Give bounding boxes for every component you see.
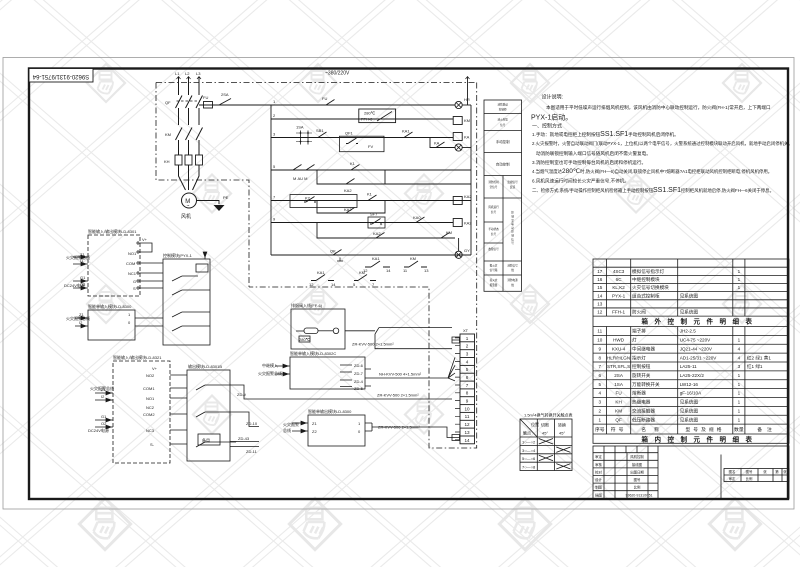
svg-text:COM: COM	[126, 261, 135, 266]
svg-text:智能单输入模块LD-8302C: 智能单输入模块LD-8302C	[290, 350, 336, 356]
svg-text:6: 6	[466, 375, 469, 380]
svg-text:45°: 45°	[559, 431, 565, 436]
svg-text:1.手动：就地或电控柜上控制按钮SS1.SF1手动控制风机启: 1.手动：就地或电控柜上控制按钮SS1.SF1手动控制风机启闭停机。	[532, 131, 679, 138]
svg-text:13: 13	[424, 268, 429, 273]
svg-text:5○—○6: 5○—○6	[522, 456, 536, 461]
svg-text:KA: KA	[434, 141, 440, 146]
svg-text:STR,SFL,S: STR,SFL,S	[607, 364, 630, 369]
svg-text:KH: KH	[164, 159, 170, 164]
svg-text:12: 12	[464, 422, 470, 427]
svg-text:M AU M: M AU M	[293, 176, 307, 181]
svg-text:出图日期: 出图日期	[630, 469, 644, 474]
svg-text:信号: 信号	[491, 232, 497, 236]
svg-text:KA2: KA2	[344, 207, 352, 212]
svg-text:FV: FV	[368, 144, 373, 149]
svg-text:HWD: HWD	[613, 338, 625, 343]
svg-text:本图适用于平时低噪声运行排烟风机控制，该风机由消防中心联动控: 本图适用于平时低噪声运行排烟风机控制，该风机由消防中心联动控制运行，防火阀(FH…	[546, 104, 771, 111]
svg-text:KA: KA	[464, 135, 470, 140]
svg-text:指示灯: 指示灯	[632, 354, 646, 361]
svg-text:KA2: KA2	[464, 221, 472, 226]
svg-text:1: 1	[738, 277, 741, 282]
svg-text:4.当烟气温度达280℃时,防火阀(FH—6)自动关闭,联锁: 4.当烟气温度达280℃时,防火阀(FH—6)自动关闭,联锁停止风机中?熔断器?…	[532, 168, 772, 175]
svg-text:3: 3	[598, 400, 601, 405]
svg-text:G1: G1	[101, 414, 107, 419]
svg-text:风机运行: 风机运行	[488, 205, 499, 209]
svg-text:17: 17	[597, 269, 603, 274]
svg-text:11: 11	[597, 329, 602, 334]
svg-text:ZR-KVV-500 2×1.5mm²: ZR-KVV-500 2×1.5mm²	[378, 425, 420, 430]
svg-text:Z1: Z1	[80, 252, 85, 257]
svg-text:KM: KM	[359, 270, 365, 275]
svg-text:1: 1	[738, 382, 741, 387]
svg-text:12: 12	[309, 282, 314, 287]
svg-text:1: 1	[738, 417, 741, 422]
svg-text:14: 14	[464, 438, 470, 443]
svg-text:Z2: Z2	[312, 429, 317, 434]
svg-text:45°: 45°	[542, 431, 548, 436]
svg-text:名称: 名称	[641, 426, 667, 433]
svg-text:输出模块LD-8301B: 输出模块LD-8301B	[188, 363, 222, 369]
svg-text:第: 第	[775, 469, 779, 474]
svg-text:位置: 位置	[531, 421, 539, 427]
svg-text:FU: FU	[203, 95, 208, 100]
svg-text:自动控制: 自动控制	[496, 162, 510, 167]
svg-text:4: 4	[466, 359, 469, 364]
svg-text:红1 绿1: 红1 绿1	[747, 363, 763, 369]
svg-text:型号及规格: 型号及规格	[686, 426, 725, 433]
svg-text:中间继电器: 中间继电器	[632, 345, 655, 352]
svg-text:备用: 备用	[202, 437, 210, 443]
svg-text:ZD-#: ZD-#	[237, 392, 247, 397]
svg-text:G1: G1	[80, 275, 86, 280]
svg-text:见系统图: 见系统图	[680, 399, 699, 406]
svg-text:S9620-9131/9751: S9620-9131/9751	[626, 493, 653, 497]
svg-text:1: 1	[598, 417, 601, 422]
svg-text:L3: L3	[196, 71, 201, 76]
svg-text:14: 14	[386, 268, 391, 273]
svg-text:AD1-25/31 ~220V: AD1-25/31 ~220V	[680, 355, 718, 360]
svg-text:见系统图: 见系统图	[680, 408, 699, 415]
svg-text:灯: 灯	[632, 337, 637, 344]
svg-text:旋转开关: 旋转开关	[632, 372, 651, 379]
svg-text:火灾报警: 火灾报警	[283, 421, 299, 427]
svg-text:3○—○4: 3○—○4	[522, 448, 536, 453]
svg-text:手动状态: 手动状态	[488, 227, 499, 231]
svg-text:12: 12	[597, 310, 603, 315]
svg-text:10: 10	[597, 338, 603, 343]
svg-text:~380/220V: ~380/220V	[325, 71, 350, 77]
svg-text:4SC3: 4SC3	[613, 269, 625, 274]
svg-text:14: 14	[597, 293, 603, 298]
svg-text:KXU-4: KXU-4	[612, 346, 626, 351]
svg-text:风机控制: 风机控制	[630, 454, 644, 459]
svg-text:13: 13	[464, 430, 470, 435]
svg-text:见系统图: 见系统图	[680, 416, 699, 423]
svg-text:中继模入: 中继模入	[262, 362, 278, 368]
svg-text:ZD-43: ZD-43	[238, 436, 250, 441]
svg-text:K2: K2	[305, 196, 311, 201]
svg-text:制图: 制图	[595, 485, 602, 490]
svg-text:KH: KH	[615, 400, 621, 405]
svg-text:NO1: NO1	[128, 251, 137, 256]
svg-text:NC2: NC2	[146, 405, 155, 410]
svg-text:审定: 审定	[729, 476, 736, 481]
svg-text:1: 1	[738, 400, 741, 405]
svg-text:280℃: 280℃	[299, 337, 311, 342]
svg-text:图号: 图号	[634, 477, 641, 482]
svg-text:7: 7	[372, 282, 375, 287]
svg-text:转换: 转换	[558, 422, 566, 428]
svg-text:KM: KM	[446, 230, 452, 235]
svg-text:FFH-6: FFH-6	[361, 117, 373, 122]
svg-text:SB1: SB1	[316, 128, 324, 133]
svg-text:智能单输出模块LD-8300: 智能单输出模块LD-8300	[308, 408, 352, 414]
svg-text:防火阀: 防火阀	[632, 309, 646, 316]
svg-text:KA1: KA1	[317, 270, 325, 275]
svg-text:监视信号: 监视信号	[507, 180, 518, 184]
svg-text:KA1: KA1	[402, 129, 410, 134]
svg-text:11: 11	[465, 414, 470, 419]
svg-text:PYX-1启动。: PYX-1启动。	[531, 112, 572, 121]
svg-text:二、检修方式,系统/手动操作控制柜风机检修箱上手动控制按钮S: 二、检修方式,系统/手动操作控制柜风机检修箱上手动控制按钮SS1.SF1控制柜风…	[532, 187, 774, 194]
svg-text:张: 张	[783, 469, 787, 474]
svg-text:4: 4	[598, 391, 601, 396]
svg-text:校对: 校对	[595, 469, 602, 474]
svg-text:控制按钮: 控制按钮	[632, 363, 651, 370]
svg-text:消防电源: 消防电源	[507, 278, 518, 282]
svg-text:KA2: KA2	[373, 231, 381, 236]
svg-text:5: 5	[466, 367, 469, 372]
svg-text:COM2: COM2	[143, 412, 155, 417]
svg-text:5: 5	[273, 164, 276, 169]
svg-text:QF: QF	[165, 100, 171, 105]
svg-text:NH-KVV-500 4×1.5mm²: NH-KVV-500 4×1.5mm²	[379, 372, 422, 377]
svg-text:NO2: NO2	[146, 373, 155, 378]
svg-text:8: 8	[466, 391, 469, 396]
svg-text:NC3: NC3	[146, 428, 155, 433]
svg-text:中继控制模块: 中继控制模块	[632, 276, 660, 283]
svg-text:KM: KM	[464, 118, 470, 123]
svg-text:1: 1	[738, 285, 741, 290]
svg-text:智能输入/输出模块LD-8321: 智能输入/输出模块LD-8321	[113, 354, 162, 360]
svg-text:7: 7	[273, 195, 276, 200]
svg-text:9: 9	[466, 399, 469, 404]
svg-text:PYX-1: PYX-1	[612, 293, 626, 298]
svg-text:设计说明:: 设计说明:	[542, 93, 563, 100]
svg-text:6.风机风速运行时间较长火灾严重信号,不停机。: 6.风机风速运行时间较长火灾严重信号,不停机。	[532, 178, 629, 185]
svg-text:总线: 总线	[283, 427, 291, 433]
svg-text:火灾信号切换模块: 火灾信号切换模块	[632, 284, 669, 291]
svg-text:ZD-5: ZD-5	[354, 386, 364, 391]
svg-text:7: 7	[598, 364, 601, 369]
svg-text:L2: L2	[185, 71, 190, 76]
svg-text:数量: 数量	[734, 426, 744, 433]
svg-text:接线图: 接线图	[632, 462, 643, 467]
svg-text:排烟阀入线(FF-6): 排烟阀入线(FF-6)	[291, 302, 323, 308]
svg-text:1SA: 1SA	[296, 125, 304, 130]
svg-text:NC1: NC1	[128, 271, 137, 276]
svg-text:切断: 切断	[541, 422, 549, 428]
svg-text:3: 3	[738, 364, 741, 369]
svg-text:3: 3	[466, 352, 469, 357]
svg-text:V+: V+	[152, 366, 158, 371]
svg-text:G: G	[133, 279, 136, 284]
svg-text:1: 1	[738, 373, 741, 378]
svg-text:3.消防控制室也可手动控制每台风机的启闭和停机运行。: 3.消防控制室也可手动控制每台风机的启闭和停机运行。	[532, 159, 646, 166]
svg-text:2: 2	[598, 409, 601, 414]
svg-text:图名: 图名	[729, 469, 736, 474]
svg-text:4: 4	[738, 355, 741, 360]
svg-text:KM: KM	[410, 256, 416, 261]
svg-text:ZR-KVV-500 2×1.5mm²: ZR-KVV-500 2×1.5mm²	[377, 393, 419, 398]
svg-text:~: ~	[187, 204, 190, 210]
svg-text:Z1: Z1	[101, 387, 106, 392]
svg-text:KA0: KA0	[413, 215, 421, 220]
svg-text:KM: KM	[615, 409, 622, 414]
svg-text:FU: FU	[616, 391, 622, 396]
svg-text:16: 16	[597, 277, 603, 282]
svg-text:ZD-6: ZD-6	[354, 363, 364, 368]
svg-text:XT: XT	[463, 328, 469, 333]
svg-text:1: 1	[738, 409, 741, 414]
svg-text:14: 14	[331, 282, 336, 287]
svg-text:消防联动: 消防联动	[498, 103, 509, 107]
svg-text:S: S	[133, 286, 136, 291]
svg-text:线: 线	[511, 268, 514, 272]
svg-text:见系统图: 见系统图	[680, 309, 699, 316]
svg-text:消火栓泵: 消火栓泵	[498, 118, 509, 122]
svg-text:2SA: 2SA	[614, 373, 624, 378]
svg-text:COM1: COM1	[143, 386, 155, 391]
svg-text:QK: QK	[330, 249, 336, 254]
svg-text:ZD-11: ZD-11	[246, 449, 258, 454]
svg-text:15: 15	[597, 285, 603, 290]
svg-text:ZD-10: ZD-10	[246, 421, 258, 426]
svg-text:低压断路器: 低压断路器	[632, 416, 655, 423]
svg-text:消防控制: 消防控制	[488, 180, 499, 184]
svg-text:2SA: 2SA	[221, 92, 229, 97]
svg-text:QF: QF	[615, 417, 622, 422]
svg-text:HLR/HLGN: HLR/HLGN	[607, 355, 630, 360]
svg-text:Z1: Z1	[312, 421, 317, 426]
svg-text:智能单输入模块LD-8300: 智能单输入模块LD-8300	[88, 303, 132, 309]
svg-text:13: 13	[597, 302, 603, 307]
svg-text:序号: 序号	[595, 426, 605, 433]
svg-text:2: 2	[466, 344, 469, 349]
svg-text:ZD-7: ZD-7	[354, 371, 364, 376]
svg-text:Z1: Z1	[79, 312, 84, 317]
svg-text:UC4-75 ~220V: UC4-75 ~220V	[680, 338, 711, 343]
svg-text:红2 绿1 黄1: 红2 绿1 黄1	[747, 354, 771, 361]
svg-text:审核: 审核	[595, 462, 602, 467]
svg-text:6: 6	[598, 373, 601, 378]
svg-text:GY: GY	[464, 248, 470, 253]
svg-text:1: 1	[466, 336, 469, 341]
svg-text:故障信号: 故障信号	[488, 247, 499, 251]
svg-text:7: 7	[466, 383, 469, 388]
svg-text:控制柜: 控制柜	[499, 108, 507, 112]
svg-text:智能输入/输出模块LD-8301: 智能输入/输出模块LD-8301	[88, 228, 137, 234]
svg-text:JH2-2.5: JH2-2.5	[680, 329, 697, 334]
svg-text:LW12-16: LW12-16	[680, 382, 699, 387]
svg-text:L1: L1	[175, 71, 180, 76]
svg-text:0: 0	[358, 429, 361, 434]
svg-text:熔断器: 熔断器	[632, 390, 646, 397]
svg-text:8: 8	[598, 355, 601, 360]
svg-text:火灾报警总线: 火灾报警总线	[258, 370, 282, 376]
svg-text:KA2: KA2	[464, 194, 472, 199]
svg-text:1: 1	[358, 421, 361, 426]
svg-text:O2: O2	[80, 282, 86, 287]
svg-text:审定: 审定	[595, 454, 602, 459]
svg-text:KA1: KA1	[372, 256, 380, 261]
svg-text:1: 1	[128, 312, 131, 317]
svg-text:S-: S-	[150, 442, 155, 447]
svg-text:7○—○8: 7○—○8	[522, 465, 536, 470]
svg-text:K1: K1	[350, 161, 356, 166]
svg-text:2: 2	[273, 113, 276, 118]
svg-text:设计: 设计	[595, 477, 602, 482]
svg-text:K1: K1	[367, 192, 373, 197]
svg-text:9: 9	[598, 346, 601, 351]
svg-text:控制模块(PYX-1: 控制模块(PYX-1	[163, 252, 193, 258]
svg-text:1: 1	[738, 269, 741, 274]
svg-text:gF-16/10A: gF-16/10A	[680, 391, 702, 396]
svg-text:LA25-11: LA25-11	[680, 364, 697, 369]
svg-text:组合式控制柜: 组合式控制柜	[632, 292, 660, 299]
svg-text:5: 5	[353, 282, 356, 287]
svg-text:280℃: 280℃	[364, 111, 376, 116]
svg-text:比例: 比例	[746, 476, 753, 481]
svg-text:风机: 风机	[181, 213, 191, 220]
svg-text:1○—○2: 1○—○2	[522, 440, 536, 445]
svg-text:万能转换开关: 万能转换开关	[632, 381, 660, 388]
svg-text:LA25-22X/2: LA25-22X/2	[680, 373, 705, 378]
svg-text:PE: PE	[223, 195, 229, 200]
svg-text:KM: KM	[165, 132, 171, 137]
svg-text:11: 11	[403, 268, 408, 273]
svg-text:ZR-KVV-500 2×1.5mm²: ZR-KVV-500 2×1.5mm²	[352, 342, 394, 347]
svg-text:O2: O2	[101, 421, 107, 426]
svg-text:图号: 图号	[746, 469, 753, 474]
svg-text:信号: 信号	[491, 210, 497, 214]
svg-text:见系统图: 见系统图	[680, 292, 699, 299]
svg-text:线: 线	[511, 283, 514, 287]
svg-text:10: 10	[464, 406, 470, 411]
svg-text:一、控制方式: 一、控制方式	[532, 123, 562, 130]
svg-text:1SA: 1SA	[614, 382, 624, 387]
svg-text:JQ21-44 ~220V: JQ21-44 ~220V	[680, 346, 713, 351]
svg-text:箱外控制元件明细表: 箱外控制元件明细表	[642, 317, 759, 326]
svg-text:9: 9	[273, 217, 276, 222]
svg-text:火灾报警总线: 火灾报警总线	[66, 254, 90, 260]
svg-text:交流接触器: 交流接触器	[632, 408, 655, 415]
svg-text:箱内控制元件明细表: 箱内控制元件明细表	[642, 435, 759, 444]
svg-text:室信号: 室信号	[490, 185, 498, 189]
svg-text:控制室联动控制信号: 控制室联动控制信号	[511, 211, 514, 245]
svg-text:报火灾: 报火灾	[490, 264, 498, 268]
svg-text:KL,K2: KL,K2	[612, 285, 625, 290]
svg-text:手动控制: 手动控制	[496, 139, 510, 144]
svg-text:反馈: 反馈	[510, 185, 516, 189]
svg-text:信号: 信号	[500, 123, 506, 127]
svg-text:符号: 符号	[611, 426, 627, 433]
svg-text:信号箱: 信号箱	[490, 268, 498, 272]
svg-text:比例: 比例	[634, 485, 641, 490]
svg-text:SF7: SF7	[370, 212, 378, 217]
svg-text:接火灾: 接火灾	[490, 278, 498, 282]
svg-text:热继电器: 热继电器	[632, 399, 651, 406]
svg-text:4: 4	[738, 346, 741, 351]
svg-text:DC24V电源: DC24V电源	[88, 427, 109, 433]
svg-text:QF1: QF1	[345, 131, 354, 136]
svg-text:S9620-9131/9751-64: S9620-9131/9751-64	[32, 73, 89, 79]
svg-text:KA2: KA2	[344, 188, 352, 193]
svg-text:张: 张	[763, 469, 767, 474]
svg-text:端子排: 端子排	[632, 328, 646, 335]
svg-text:HR: HR	[464, 97, 470, 102]
svg-text:消防信号: 消防信号	[507, 264, 518, 268]
svg-text:2.火灾报警时，火警自动联动阀门(联动PYX-1，上位机)以: 2.火灾报警时，火警自动联动阀门(联动PYX-1，上位机)以两个电平信号，火警系…	[532, 140, 793, 147]
svg-text:火灾报警总线: 火灾报警总线	[66, 315, 90, 321]
svg-text:触点: 触点	[523, 430, 531, 436]
svg-text:5: 5	[598, 382, 601, 387]
svg-text:6C: 6C	[616, 277, 623, 282]
svg-text:3: 3	[273, 132, 276, 137]
svg-text:模拟信号指示灯: 模拟信号指示灯	[632, 268, 665, 275]
svg-text:0: 0	[128, 320, 131, 325]
svg-text:V+: V+	[142, 237, 148, 242]
svg-text:备注: 备注	[757, 426, 777, 433]
svg-text:描图: 描图	[595, 492, 602, 497]
svg-text:动消防联锁控制输入端口信号随风机启闭不需火警复电。: 动消防联锁控制输入端口信号随风机启闭不需火警复电。	[536, 150, 651, 157]
svg-text:FU: FU	[322, 96, 327, 101]
svg-text:NO1: NO1	[146, 396, 155, 401]
svg-text:1: 1	[738, 391, 741, 396]
svg-text:ZD-4: ZD-4	[354, 379, 364, 384]
svg-text:1: 1	[738, 338, 741, 343]
svg-text:报警器: 报警器	[490, 283, 498, 287]
svg-text:FFH-1: FFH-1	[612, 310, 625, 315]
svg-text:1.5m²4换气转换开关触点表: 1.5m²4换气转换开关触点表	[524, 412, 572, 418]
